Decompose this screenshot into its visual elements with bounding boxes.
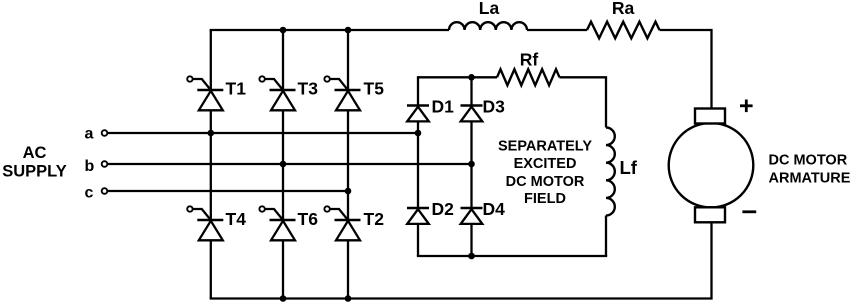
junction phase b bridge	[468, 161, 475, 168]
svg-text:EXCITED: EXCITED	[514, 156, 577, 172]
svg-text:ARMATURE: ARMATURE	[769, 171, 850, 187]
svg-text:Lf: Lf	[620, 157, 638, 178]
junction top bus c	[345, 27, 352, 34]
svg-text:D1: D1	[432, 97, 455, 117]
junction bottom bus c	[345, 295, 352, 302]
svg-text:T1: T1	[226, 79, 247, 99]
diode D4	[461, 208, 483, 224]
svg-text:D4: D4	[483, 199, 506, 219]
svg-text:SEPARATELY: SEPARATELY	[498, 139, 592, 155]
resistor Rf	[497, 69, 560, 85]
terminal phase b	[102, 161, 108, 167]
wire D4 column lower	[470, 224, 472, 256]
wire bridge bottom rail	[417, 255, 607, 257]
wire column c middle	[347, 110, 349, 220]
svg-text:T6: T6	[298, 209, 319, 229]
thyristor T5	[324, 76, 360, 110]
thyristor T6	[259, 206, 295, 240]
label plus terminal	[740, 100, 753, 113]
junction phase c T5	[345, 188, 352, 195]
svg-text:T5: T5	[364, 79, 385, 99]
wire column a lower	[210, 240, 212, 298]
wire top bus to motor	[660, 30, 712, 109]
wire top DC bus	[210, 29, 449, 31]
svg-text:a: a	[85, 125, 94, 142]
junction bridge bottom D4	[468, 253, 475, 260]
wire column b lower	[282, 240, 284, 298]
inductor Lf	[606, 128, 615, 216]
thyristor T2	[324, 206, 360, 240]
thyristor T3	[259, 76, 295, 110]
wire phase c	[107, 190, 348, 192]
wire column b middle	[282, 110, 284, 220]
wire column a middle	[210, 110, 212, 220]
junction top bus b	[280, 27, 287, 34]
terminal phase c	[102, 188, 108, 194]
wire D2 column lower	[417, 224, 419, 256]
wire column c upper	[347, 30, 349, 90]
wire bridge right lower	[605, 216, 607, 257]
diode D1	[407, 106, 429, 122]
wire D1 column upper	[417, 76, 419, 105]
svg-text:c: c	[85, 185, 94, 202]
label minus terminal	[742, 210, 756, 213]
wire top bus La-Ra	[527, 29, 587, 31]
junction phase a T1	[208, 130, 215, 137]
inductor La	[449, 22, 527, 30]
wire phase a	[107, 132, 418, 134]
resistor Ra	[587, 22, 660, 39]
svg-text:Rf: Rf	[520, 50, 539, 70]
wire column b upper	[282, 30, 284, 90]
svg-text:Ra: Ra	[612, 0, 635, 18]
svg-text:T3: T3	[298, 79, 319, 99]
svg-text:SUPPLY: SUPPLY	[2, 163, 67, 181]
diode D2	[407, 208, 429, 224]
wire phase b	[107, 163, 471, 165]
junction phase b T3	[280, 161, 287, 168]
svg-text:D3: D3	[483, 97, 506, 117]
svg-text:AC: AC	[23, 144, 47, 162]
svg-text:T4: T4	[226, 209, 247, 229]
wire bridge top rail right	[560, 77, 607, 127]
thyristor T1	[187, 76, 223, 110]
wire D1-D2 column	[417, 121, 419, 208]
junction phase a bridge	[415, 130, 422, 137]
motor armature M1	[669, 109, 754, 223]
svg-text:La: La	[479, 0, 500, 18]
wire D3 column upper	[470, 77, 472, 105]
thyristor T4	[187, 206, 223, 240]
junction bridge top D3	[468, 74, 475, 81]
svg-text:T2: T2	[364, 209, 385, 229]
diode D3	[461, 106, 483, 122]
svg-text:DC MOTOR: DC MOTOR	[506, 174, 585, 190]
svg-text:D2: D2	[432, 199, 455, 219]
wire D3-D4 column	[470, 121, 472, 208]
wire bottom DC bus	[210, 223, 712, 299]
junction bottom bus b	[280, 295, 287, 302]
terminal phase a	[102, 130, 108, 136]
svg-text:b: b	[85, 158, 95, 175]
wire bridge top rail left	[418, 76, 497, 78]
svg-text:DC MOTOR: DC MOTOR	[769, 153, 848, 169]
svg-text:FIELD: FIELD	[524, 191, 566, 207]
wire column a upper	[210, 30, 212, 90]
wire column c lower	[347, 240, 349, 298]
